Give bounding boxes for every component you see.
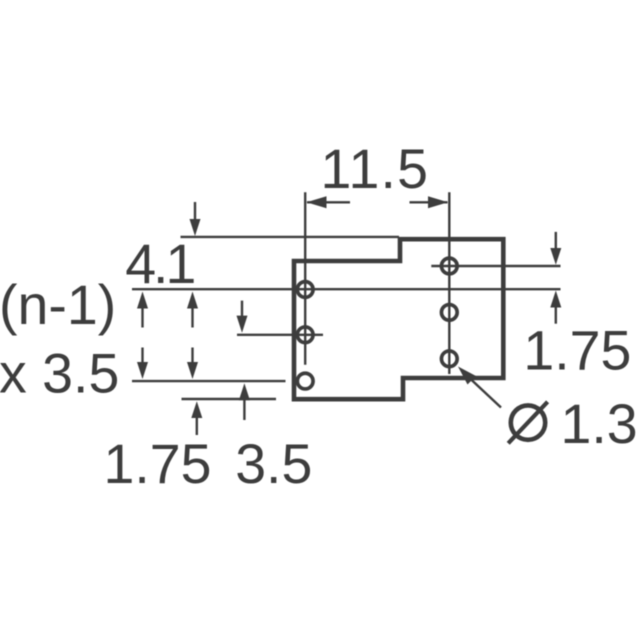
- svg-text:4.1: 4.1: [125, 233, 194, 295]
- svg-text:3.5: 3.5: [235, 433, 312, 495]
- svg-text:1.3: 1.3: [561, 393, 638, 455]
- svg-text:1.75: 1.75: [523, 320, 631, 382]
- svg-text:(n-1): (n-1): [0, 274, 116, 336]
- svg-text:11.5: 11.5: [321, 138, 430, 200]
- svg-text:1.75: 1.75: [104, 433, 212, 495]
- svg-text:x 3.5: x 3.5: [0, 342, 119, 404]
